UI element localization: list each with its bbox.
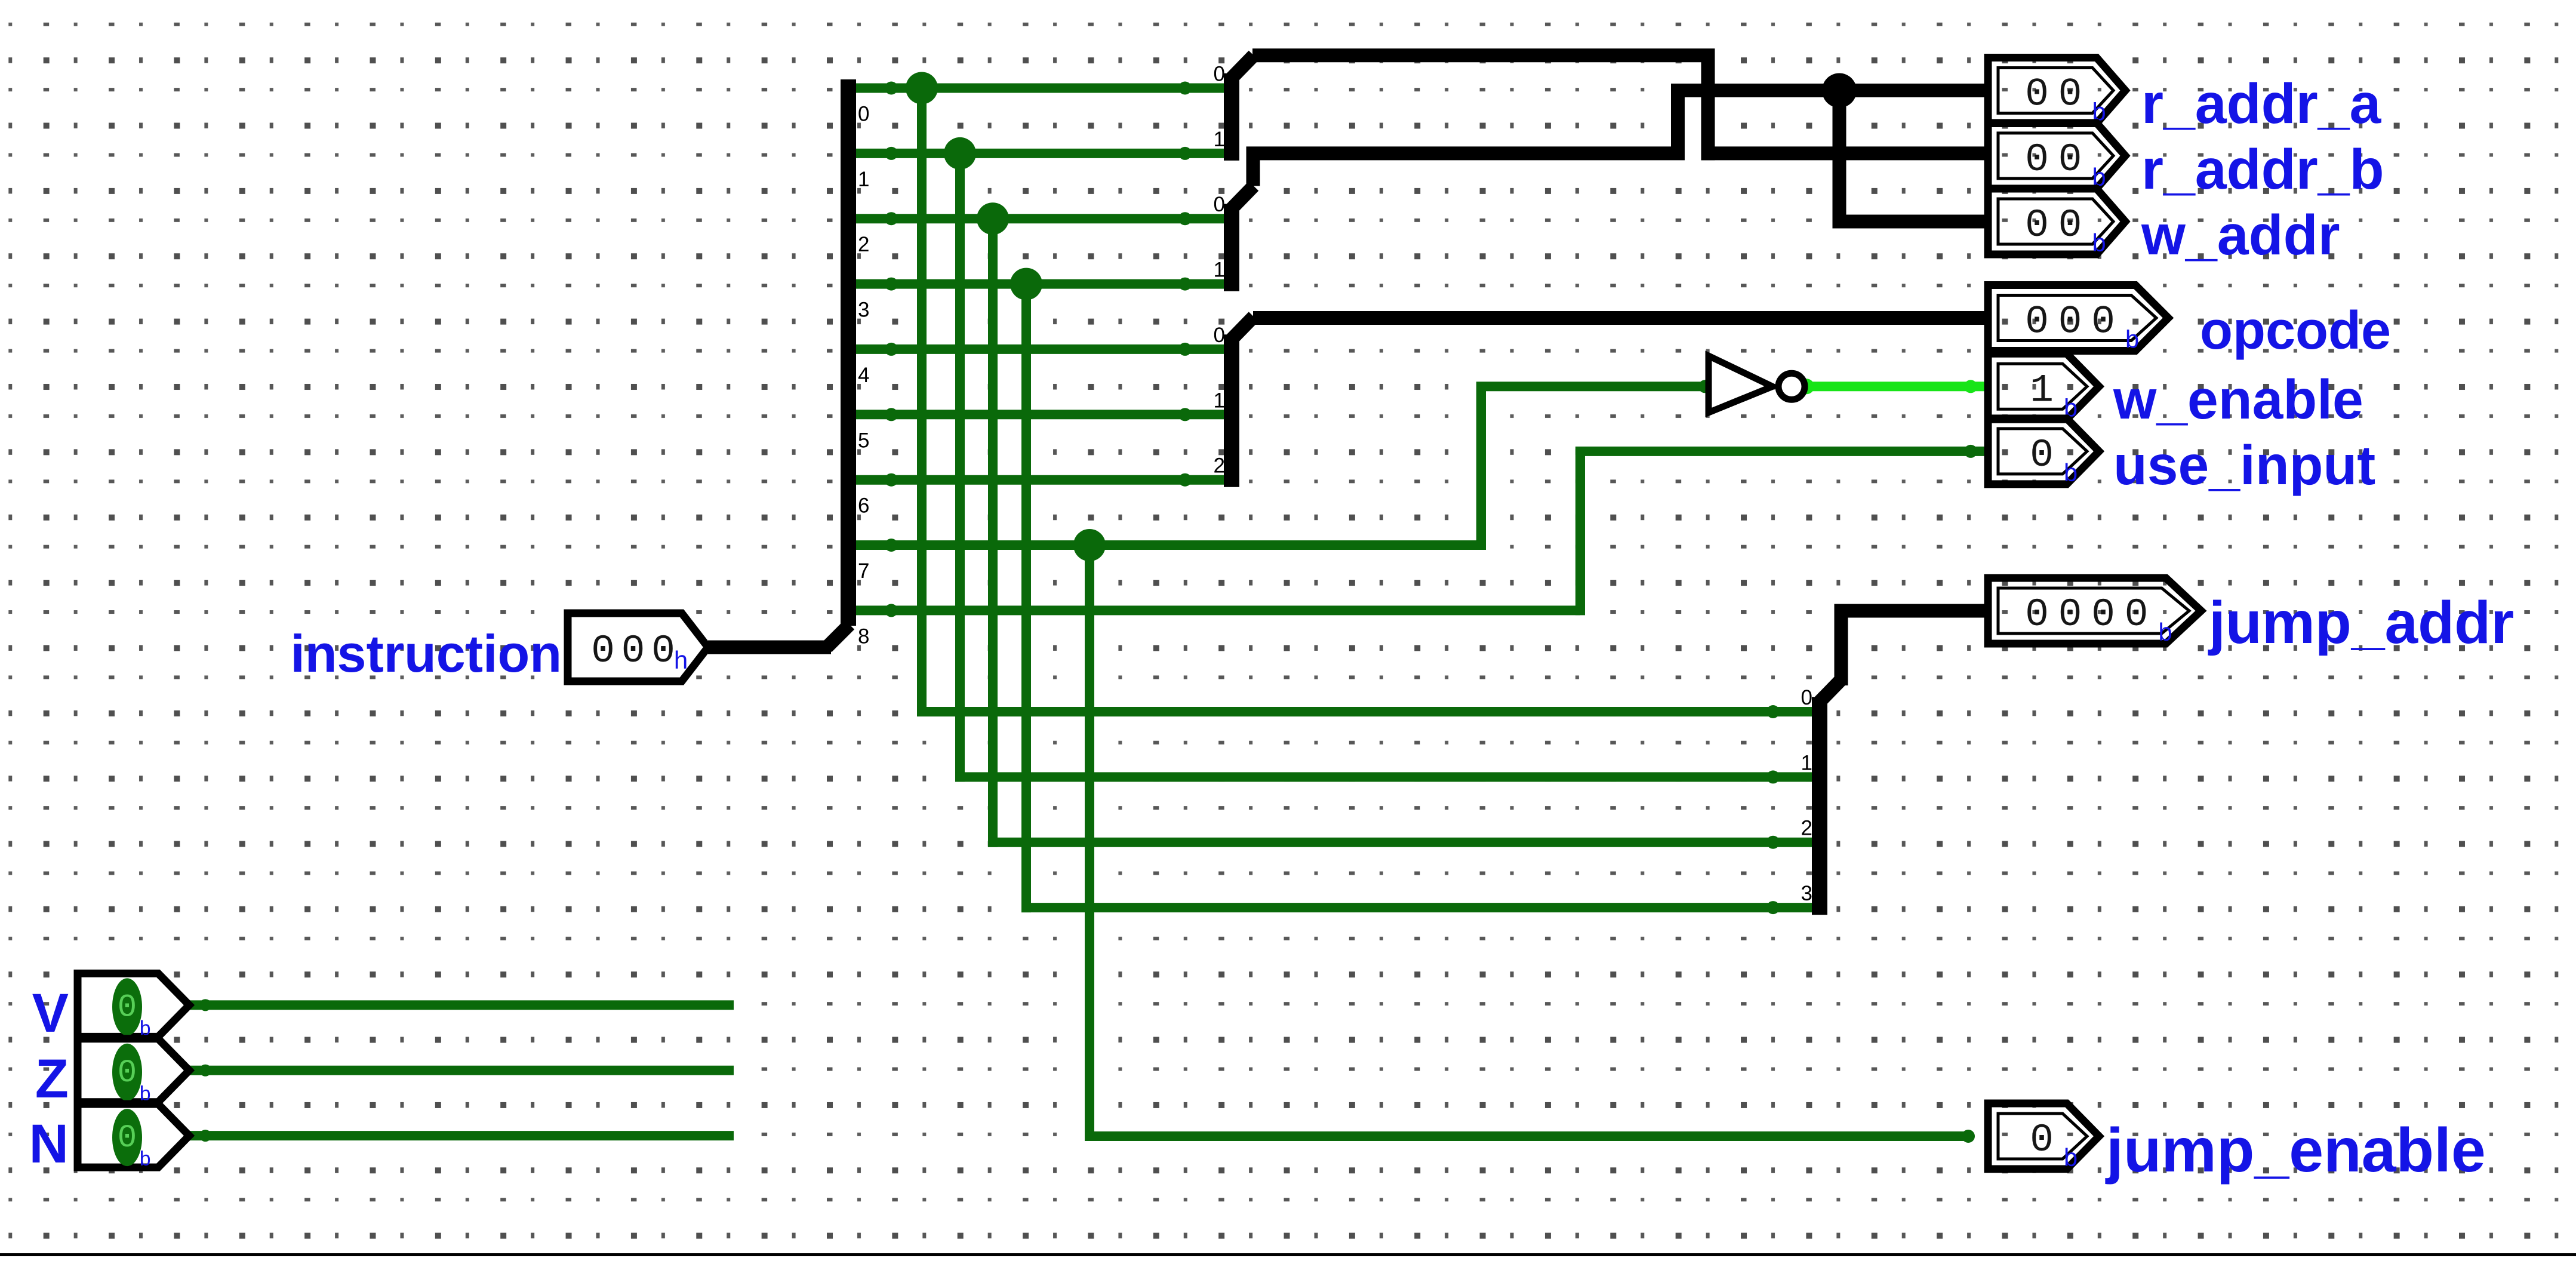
svg-text:0: 0 [2125,592,2149,637]
svg-text:0: 0 [2091,300,2115,345]
svg-text:0: 0 [2030,433,2054,478]
svg-text:b: b [139,1149,151,1172]
svg-text:jump_addr: jump_addr [2208,589,2514,656]
svg-text:w_addr: w_addr [2141,204,2340,267]
svg-text:0: 0 [1801,686,1812,709]
svg-text:0: 0 [2058,137,2082,182]
svg-text:0: 0 [2058,300,2082,345]
svg-text:instruction: instruction [290,624,562,683]
svg-text:0: 0 [2058,203,2082,248]
svg-text:1: 1 [1214,128,1225,151]
svg-text:1: 1 [2030,368,2054,413]
svg-text:0: 0 [2058,72,2082,117]
svg-text:opcode: opcode [2200,301,2391,361]
svg-text:5: 5 [858,429,869,452]
svg-text:r_addr_b: r_addr_b [2141,138,2384,201]
svg-text:V: V [32,983,69,1044]
svg-text:h: h [673,648,688,676]
svg-text:0: 0 [1214,193,1225,216]
svg-text:0: 0 [118,989,137,1026]
svg-text:jump_enable: jump_enable [2105,1116,2486,1185]
svg-text:b: b [2158,620,2173,648]
svg-text:3: 3 [858,299,869,322]
svg-text:b: b [2063,1145,2078,1174]
svg-text:0: 0 [858,103,869,126]
svg-text:0: 0 [2030,1118,2054,1162]
svg-text:0: 0 [2025,72,2049,117]
svg-text:use_input: use_input [2113,434,2375,496]
svg-text:0: 0 [2025,203,2049,248]
svg-text:6: 6 [858,494,869,518]
svg-text:0: 0 [651,629,675,673]
svg-text:0: 0 [1214,324,1225,347]
svg-text:N: N [29,1114,69,1174]
svg-text:7: 7 [858,559,869,583]
svg-text:1: 1 [1214,389,1225,412]
svg-text:1: 1 [858,168,869,191]
svg-text:0: 0 [621,629,645,673]
svg-text:3: 3 [1801,882,1812,905]
svg-text:2: 2 [858,233,869,256]
svg-text:b: b [2063,460,2078,489]
svg-text:8: 8 [858,625,869,648]
svg-text:0: 0 [118,1055,137,1091]
svg-text:1: 1 [1214,259,1225,282]
svg-text:Z: Z [35,1048,69,1109]
svg-text:2: 2 [1214,454,1225,478]
svg-text:w_enable: w_enable [2113,368,2363,430]
svg-text:0: 0 [2025,137,2049,182]
svg-text:0: 0 [118,1120,137,1157]
svg-text:0: 0 [2058,592,2082,637]
svg-text:b: b [2092,230,2107,259]
svg-text:0: 0 [2025,592,2049,637]
svg-text:b: b [2125,327,2140,356]
svg-text:1: 1 [1801,751,1812,774]
svg-text:0: 0 [2025,300,2049,345]
svg-text:0: 0 [591,629,615,673]
svg-text:0: 0 [2091,592,2115,637]
svg-text:2: 2 [1801,817,1812,840]
svg-text:r_addr_a: r_addr_a [2141,72,2382,136]
svg-text:0: 0 [1214,63,1225,86]
svg-text:4: 4 [858,364,869,387]
